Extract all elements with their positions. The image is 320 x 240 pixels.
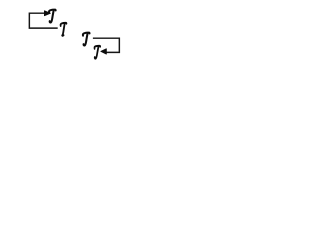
wire: upper loop (left vertical, top + bottom horizontals) xyxy=(29,13,57,28)
label T3 (lower loop, tail end) xyxy=(83,33,90,46)
label T2 (upper loop, tail end) xyxy=(61,23,67,36)
wire: lower loop (top horizontal, right vertical, bottom horizontal) xyxy=(93,38,119,52)
label T1 (upper loop, arrow target) xyxy=(49,10,56,23)
arrowhead pointing right at T (upper loop) xyxy=(44,11,50,16)
arrowhead pointing left at T (lower loop) xyxy=(101,49,107,54)
label T4 (lower loop, arrow target) xyxy=(94,46,100,59)
